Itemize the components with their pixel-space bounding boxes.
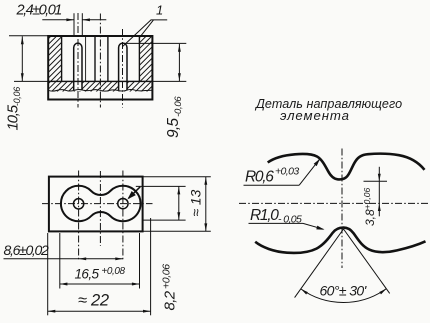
svg-text:≈ 13: ≈ 13: [189, 189, 204, 216]
svg-text:60°± 30': 60°± 30': [320, 282, 368, 298]
svg-text:8,6±0,02: 8,6±0,02: [4, 242, 50, 258]
svg-text:1: 1: [156, 3, 163, 18]
svg-text:R1,0: R1,0: [250, 207, 279, 224]
svg-text:≈ 22: ≈ 22: [78, 292, 109, 310]
svg-text:+0,03: +0,03: [275, 166, 299, 178]
svg-text:R0,6: R0,6: [245, 168, 274, 185]
svg-text:2,4±0,01: 2,4±0,01: [16, 2, 62, 18]
svg-text:элемента: элемента: [280, 108, 350, 123]
